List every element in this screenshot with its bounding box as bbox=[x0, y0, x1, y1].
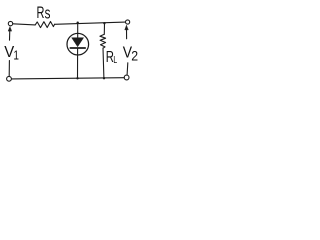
label RS bbox=[37, 3, 51, 22]
voltage arrow V2 (lower segment) bbox=[126, 63, 129, 75]
wire diode bottom lead bbox=[77, 49, 79, 79]
svg-text:L: L bbox=[113, 54, 117, 66]
terminal V1 top bbox=[8, 21, 12, 25]
resistor RS bbox=[35, 22, 54, 28]
junction diode top bbox=[77, 22, 79, 24]
resistor RL bbox=[100, 34, 106, 48]
voltage arrow V2 (upper segment with head) bbox=[125, 25, 129, 39]
voltage arrow V1 (lower segment) bbox=[8, 61, 10, 76]
wire diode top lead bbox=[77, 23, 79, 38]
wire bottom rail bbox=[12, 78, 125, 79]
label RL bbox=[106, 47, 118, 65]
wire RL bottom lead bbox=[102, 48, 105, 78]
wire RL top lead bbox=[103, 23, 105, 34]
svg-text:1: 1 bbox=[13, 49, 19, 62]
wire top rail right (RS to V2 terminal) bbox=[55, 22, 126, 24]
junction RL bottom bbox=[103, 77, 105, 79]
label V2 bbox=[123, 44, 138, 64]
label V1 bbox=[4, 44, 19, 63]
junction diode bottom bbox=[76, 77, 78, 79]
svg-text:s: s bbox=[45, 4, 51, 22]
terminal V2 bottom bbox=[124, 75, 129, 80]
terminal V2 top bbox=[126, 20, 130, 24]
junction RL top bbox=[103, 22, 105, 24]
svg-text:2: 2 bbox=[131, 48, 138, 64]
voltage arrow V1 (upper segment with head) bbox=[8, 27, 12, 41]
diode D1 (diode in circle) bbox=[67, 33, 89, 55]
svg-text:R: R bbox=[37, 3, 45, 22]
wire top rail left (V1 terminal to RS) bbox=[13, 24, 35, 25]
terminal V1 bottom bbox=[7, 76, 12, 81]
